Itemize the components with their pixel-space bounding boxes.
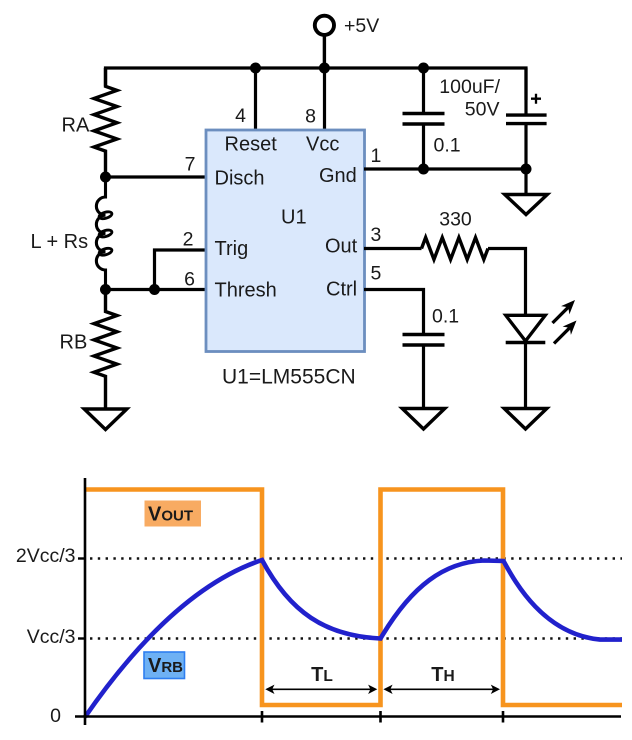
svg-text:L + Rs: L + Rs — [31, 231, 89, 253]
wire LED to ground — [524, 343, 527, 409]
svg-text:Disch: Disch — [215, 167, 265, 189]
svg-text:330: 330 — [439, 209, 472, 231]
wire top rail — [106, 68, 527, 100]
capacitor C 100uF/50V electrolytic — [439, 68, 546, 169]
svg-text:RA: RA — [62, 114, 90, 136]
capacitor 0.1 ctrl — [403, 306, 460, 346]
svg-text:Reset: Reset — [225, 133, 278, 155]
wire Thresh pin 6 — [106, 288, 207, 291]
node junction pin8 rail — [319, 63, 330, 74]
y axis — [84, 478, 87, 725]
y axis tick 2Vcc/3 — [78, 557, 86, 559]
svg-text:RB: RB — [60, 332, 88, 354]
+5V supply terminal — [315, 15, 379, 37]
svg-text:4: 4 — [235, 105, 246, 127]
svg-text:Vcc/3: Vcc/3 — [27, 626, 76, 648]
svg-text:VOUT: VOUT — [148, 504, 193, 526]
x axis — [75, 715, 621, 718]
svg-text:Thresh: Thresh — [215, 279, 277, 301]
wire pin 8 — [323, 68, 326, 130]
wire Out pin 3 — [364, 247, 422, 250]
svg-text:0.1: 0.1 — [434, 135, 461, 157]
node junction pin4 rail — [250, 63, 261, 74]
svg-text:5: 5 — [371, 263, 382, 285]
resistor RA — [62, 68, 118, 177]
wire Gnd pin 1 — [364, 167, 526, 170]
arrow TL duration — [265, 664, 377, 694]
ground LED — [504, 409, 547, 430]
polarity plus sign — [531, 94, 541, 104]
LED light arrow 2 — [554, 321, 577, 344]
ground left — [84, 409, 127, 430]
wire resistor to LED — [488, 249, 526, 316]
svg-text:U1=LM555CN: U1=LM555CN — [222, 365, 356, 388]
svg-text:7: 7 — [185, 154, 196, 176]
wire Disch pin 7 — [106, 175, 207, 178]
node dot Thresh junction left — [100, 284, 111, 295]
svg-text:6: 6 — [184, 269, 195, 291]
svg-text:+5V: +5V — [344, 15, 379, 37]
svg-text:100uF/: 100uF/ — [439, 76, 500, 98]
svg-text:0.1: 0.1 — [432, 306, 459, 328]
svg-text:TL: TL — [311, 664, 333, 686]
node dot RA/Disch junction — [100, 172, 111, 183]
capacitor 0.1 top — [403, 68, 461, 169]
y axis tick Vcc/3 — [78, 637, 86, 639]
label VOUT — [145, 501, 202, 527]
svg-text:Out: Out — [325, 236, 358, 258]
axis tick at TH end — [502, 711, 505, 723]
svg-text:Vcc: Vcc — [306, 133, 339, 155]
dotted threshold line 2Vcc/3 — [90, 557, 622, 559]
svg-text:0: 0 — [50, 705, 61, 727]
wire pin 4 — [254, 68, 257, 130]
svg-text:Gnd: Gnd — [319, 165, 357, 187]
svg-text:50V: 50V — [465, 99, 500, 121]
resistor RB — [60, 290, 118, 410]
axis tick at TL end — [379, 711, 382, 723]
node dot cap/gnd wire — [418, 164, 429, 175]
svg-text:Trig: Trig — [215, 238, 249, 260]
svg-text:1: 1 — [371, 145, 382, 167]
wire +5V to top rail — [323, 35, 326, 68]
wire Ctrl pin 5 — [364, 290, 424, 335]
ground ctrl cap — [402, 409, 445, 430]
inductor L + Rs — [31, 177, 113, 290]
axis tick at TL start — [261, 711, 264, 723]
ground right caps — [505, 195, 548, 215]
LED light arrow 1 — [553, 300, 576, 323]
wire to ground right — [524, 169, 527, 195]
svg-text:2Vcc/3: 2Vcc/3 — [16, 545, 76, 567]
wire ctrl cap to ground — [422, 345, 425, 409]
svg-text:3: 3 — [371, 224, 382, 246]
node junction cap rail — [418, 63, 429, 74]
waveform VOUT orange square wave — [86, 490, 622, 706]
dotted threshold line Vcc/3 — [90, 637, 622, 639]
svg-text:8: 8 — [305, 106, 316, 128]
label VRB — [144, 652, 185, 679]
LED D1 — [506, 315, 546, 342]
svg-text:VRB: VRB — [148, 655, 183, 677]
arrow TH duration — [383, 664, 500, 694]
IC U1 LM555 timer body — [206, 130, 365, 352]
svg-text:Ctrl: Ctrl — [326, 279, 357, 301]
node dot gnd wire right — [521, 164, 532, 175]
waveform VRB blue exponential — [85, 560, 622, 717]
resistor 330 — [422, 209, 489, 260]
svg-text:U1: U1 — [281, 207, 307, 229]
svg-text:2: 2 — [183, 229, 194, 251]
node dot Trig/Thresh junction — [149, 284, 160, 295]
svg-text:TH: TH — [431, 664, 454, 686]
wire Trig pin 2 — [155, 250, 207, 290]
